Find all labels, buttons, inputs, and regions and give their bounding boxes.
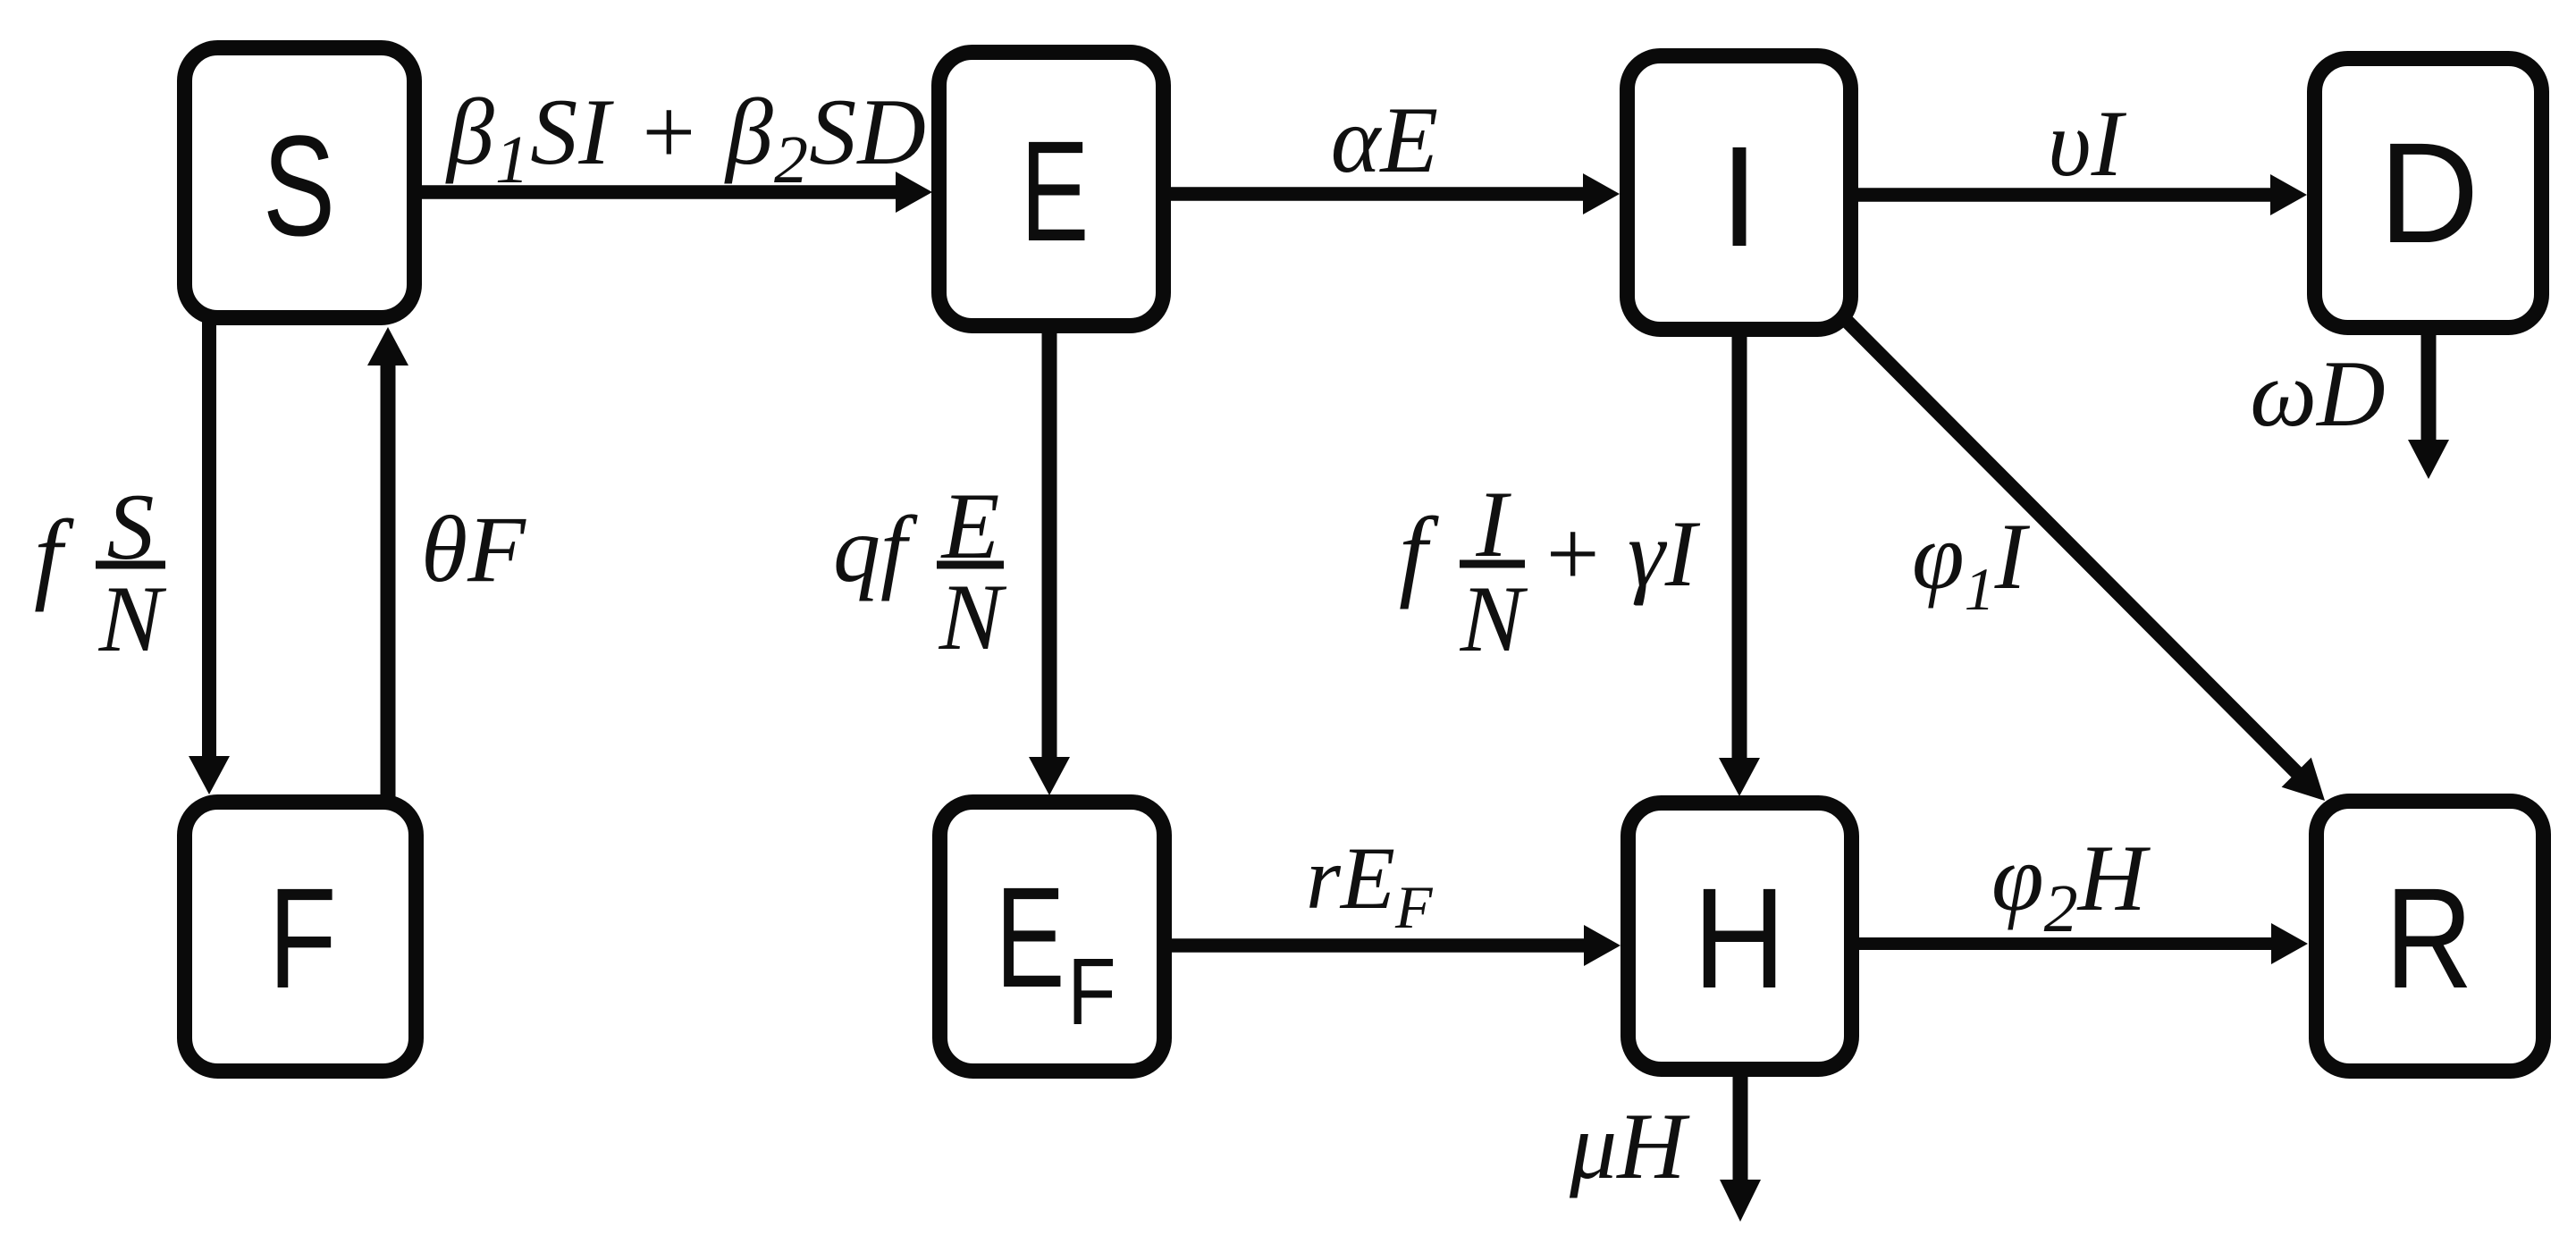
- arrow D down out: [2421, 326, 2437, 441]
- svg-text:F: F: [268, 859, 336, 1018]
- arrow S down to F: [202, 318, 216, 760]
- compartment box EF: [940, 802, 1165, 1071]
- svg-text:D: D: [2378, 113, 2479, 273]
- arrow E down to EF: [1042, 326, 1057, 760]
- svg-text:S: S: [263, 106, 335, 266]
- svg-text:I: I: [1720, 116, 1759, 276]
- svg-text:ωD: ωD: [2250, 341, 2385, 446]
- svg-text:N: N: [98, 567, 167, 671]
- compartment box I: [1628, 56, 1851, 330]
- arrow I to D: [1858, 188, 2272, 202]
- svg-text:+ γI: + γI: [1540, 501, 1701, 606]
- arrow EF to H: [1172, 938, 1586, 953]
- svg-text:E: E: [1021, 111, 1090, 271]
- svg-text:E: E: [996, 857, 1065, 1017]
- svg-text:υI: υI: [2048, 91, 2127, 196]
- arrow F up to S: [381, 362, 396, 802]
- compartment box E: [939, 53, 1164, 326]
- svg-text:μH: μH: [1569, 1094, 1690, 1198]
- compartment box H: [1629, 803, 1852, 1070]
- arrow H to R: [1859, 937, 2273, 950]
- svg-text:H: H: [1693, 859, 1786, 1019]
- compartment box R: [2317, 802, 2544, 1071]
- arrow I down to H: [1732, 330, 1747, 761]
- compartment box F: [185, 802, 417, 1071]
- svg-text:N: N: [939, 565, 1007, 669]
- svg-text:N: N: [1460, 567, 1528, 671]
- compartment box S: [185, 48, 415, 318]
- arrow E to I: [1171, 187, 1585, 201]
- compartment box D: [2315, 59, 2542, 328]
- svg-text:R: R: [2385, 860, 2472, 1019]
- svg-text:F: F: [1067, 938, 1115, 1045]
- svg-text:θF: θF: [421, 497, 526, 601]
- arrow H down out: [1733, 1070, 1748, 1181]
- svg-text:αE: αE: [1331, 88, 1438, 192]
- arrow I diagonal to R: [1846, 320, 2298, 774]
- svg-text:qf: qf: [833, 497, 918, 601]
- arrow S to E: [422, 185, 897, 199]
